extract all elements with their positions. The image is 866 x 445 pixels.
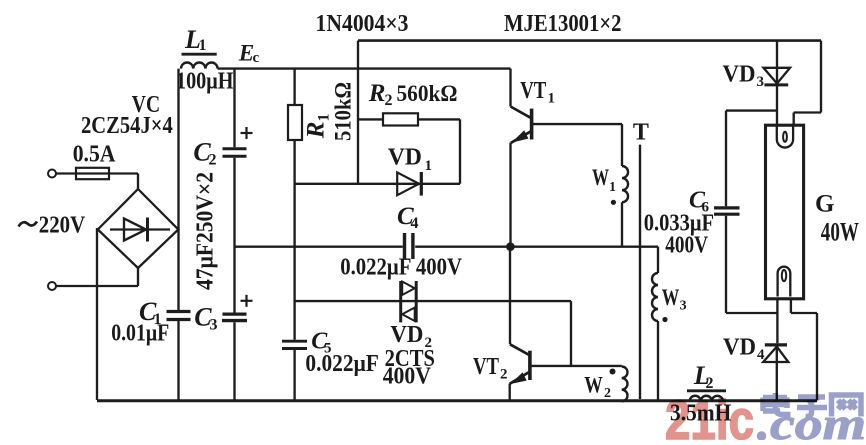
svg-text:47μF250V×2: 47μF250V×2 — [193, 172, 219, 290]
svg-text:W: W — [584, 373, 603, 398]
svg-text:VD: VD — [723, 335, 756, 361]
svg-text:1: 1 — [548, 91, 556, 107]
svg-text:VT: VT — [473, 354, 499, 380]
svg-text:3: 3 — [757, 74, 765, 90]
svg-text:4: 4 — [757, 347, 765, 363]
svg-text:400V: 400V — [665, 233, 708, 259]
svg-text:W: W — [662, 285, 680, 310]
svg-text:W: W — [592, 165, 609, 190]
svg-text:2: 2 — [604, 386, 611, 401]
svg-text:2: 2 — [209, 152, 217, 169]
svg-text:T: T — [633, 120, 649, 146]
svg-text:G: G — [815, 191, 834, 218]
svg-text:VT: VT — [520, 78, 546, 104]
svg-text:40W: 40W — [821, 218, 859, 247]
svg-text:2: 2 — [385, 92, 393, 109]
svg-text:220V: 220V — [39, 213, 86, 239]
svg-text:R: R — [368, 80, 386, 107]
svg-text:1: 1 — [199, 37, 207, 54]
svg-text:100μH: 100μH — [176, 69, 234, 95]
svg-text:400V: 400V — [383, 364, 432, 390]
svg-text:0.5A: 0.5A — [73, 142, 116, 168]
svg-text:com: com — [770, 398, 866, 440]
svg-text:510kΩ: 510kΩ — [331, 82, 356, 141]
svg-text:0.022μF 400V: 0.022μF 400V — [340, 255, 462, 281]
svg-text:MJE13001×2: MJE13001×2 — [504, 11, 622, 37]
svg-text:2CZ54J×4: 2CZ54J×4 — [81, 113, 173, 139]
svg-text:2: 2 — [500, 367, 508, 383]
svg-text:1N4004×3: 1N4004×3 — [316, 11, 409, 37]
svg-text:VD: VD — [390, 322, 423, 348]
svg-text:c: c — [253, 50, 260, 66]
svg-text:1: 1 — [425, 158, 433, 174]
svg-text:560kΩ: 560kΩ — [397, 81, 458, 106]
svg-text:VD: VD — [723, 62, 756, 88]
svg-text:21ic: 21ic — [665, 388, 754, 440]
svg-text:3: 3 — [680, 299, 687, 314]
svg-text:VD: VD — [388, 145, 422, 171]
svg-text:4: 4 — [411, 215, 419, 232]
svg-text:1: 1 — [609, 180, 616, 195]
svg-text:0.022μF: 0.022μF — [305, 351, 378, 377]
svg-text:3: 3 — [210, 317, 218, 334]
svg-text:0.01μF: 0.01μF — [111, 321, 169, 347]
